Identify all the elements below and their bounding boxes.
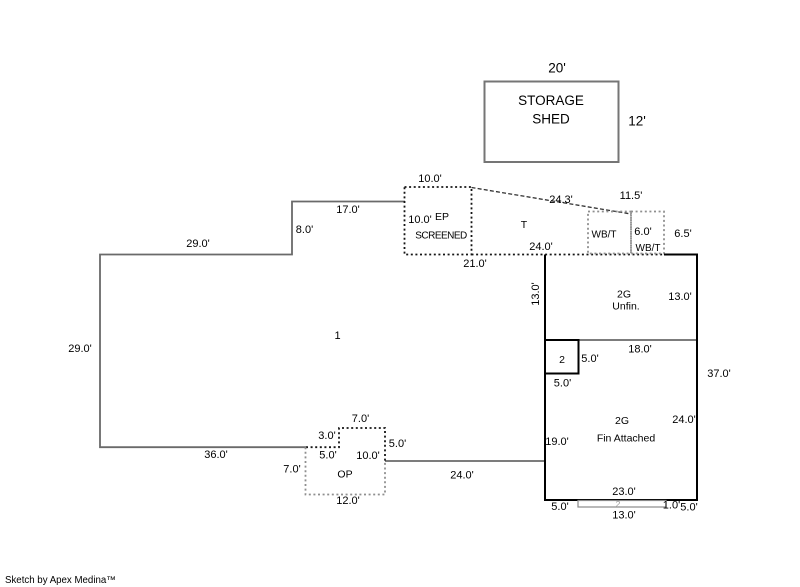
svg-text:5.0': 5.0' <box>319 450 336 462</box>
wire 24.0' connector line from OP to garage <box>385 460 545 462</box>
svg-text:24.0': 24.0' <box>672 414 696 426</box>
EP screened porch dotted box <box>405 187 472 255</box>
OP porch gray dotted sides <box>306 447 386 494</box>
svg-text:11.5': 11.5' <box>620 190 643 202</box>
svg-text:20': 20' <box>548 60 566 75</box>
svg-text:5.0': 5.0' <box>389 438 406 450</box>
svg-text:23.0': 23.0' <box>612 486 636 498</box>
svg-text:17.0': 17.0' <box>336 204 360 216</box>
small box 2 outline <box>545 340 579 374</box>
T area diagonal dashed line 24.3' <box>472 188 632 215</box>
svg-text:12': 12' <box>628 113 646 128</box>
svg-text:5.0': 5.0' <box>551 501 568 513</box>
svg-text:WB/T: WB/T <box>636 243 661 254</box>
svg-text:18.0': 18.0' <box>628 344 652 356</box>
svg-text:21.0': 21.0' <box>463 258 487 270</box>
svg-text:7.0': 7.0' <box>283 464 300 476</box>
svg-text:5.0': 5.0' <box>554 378 571 390</box>
svg-text:6.5': 6.5' <box>674 228 691 240</box>
svg-text:7.0': 7.0' <box>352 413 369 425</box>
svg-text:24.0': 24.0' <box>529 241 553 253</box>
svg-text:OP: OP <box>337 468 352 480</box>
svg-text:Sketch by Apex Medina™: Sketch by Apex Medina™ <box>5 575 116 586</box>
svg-text:10.0': 10.0' <box>408 214 432 226</box>
house area 1 outline (17.0' top, 8.0' step, 29.0' top, 29.0' left, 36.0' bottom) <box>100 202 405 448</box>
svg-text:WB/T: WB/T <box>592 230 617 241</box>
svg-text:13.0': 13.0' <box>530 282 542 306</box>
svg-text:19.0': 19.0' <box>545 436 569 448</box>
stoop rectangle below garage <box>578 501 666 508</box>
WB/T box 2 dotted outline <box>631 212 664 254</box>
svg-text:3.0': 3.0' <box>318 430 335 442</box>
svg-text:10.0': 10.0' <box>356 450 380 462</box>
svg-text:2G: 2G <box>615 415 629 427</box>
storage shed outline <box>485 82 619 163</box>
svg-text:5.0': 5.0' <box>680 502 697 514</box>
garage 2G outline (open top at left, solid 6.5' top segment, right, bottom, left edges) <box>545 255 697 501</box>
svg-text:6.0': 6.0' <box>634 226 651 238</box>
svg-text:29.0': 29.0' <box>186 238 210 250</box>
WB/T box 1 dotted outline <box>588 212 631 254</box>
svg-text:24.0': 24.0' <box>450 470 474 482</box>
svg-text:SCREENED: SCREENED <box>415 230 467 241</box>
svg-text:13.0': 13.0' <box>668 291 692 303</box>
svg-text:29.0': 29.0' <box>68 343 92 355</box>
svg-text:2: 2 <box>616 499 621 509</box>
svg-text:2: 2 <box>559 354 565 366</box>
svg-text:10.0': 10.0' <box>418 173 442 185</box>
svg-text:SHED: SHED <box>532 111 570 126</box>
svg-text:1.0': 1.0' <box>663 500 680 512</box>
svg-text:2G: 2G <box>617 288 631 300</box>
svg-text:Fin Attached: Fin Attached <box>597 432 656 444</box>
OP bump dark dotted outline (3.0' up, 7.0' across, 5.0' down) <box>306 428 385 461</box>
svg-text:37.0': 37.0' <box>707 368 731 380</box>
svg-text:13.0': 13.0' <box>612 510 636 522</box>
garage divider line between 2G Unfin and 2G Fin Attached <box>546 339 696 341</box>
svg-text:T: T <box>521 219 528 231</box>
svg-text:36.0': 36.0' <box>204 449 228 461</box>
svg-text:Unfin.: Unfin. <box>612 300 639 312</box>
svg-text:EP: EP <box>435 211 449 223</box>
svg-text:STORAGE: STORAGE <box>518 93 584 108</box>
svg-text:1: 1 <box>334 330 340 342</box>
svg-text:8.0': 8.0' <box>296 224 313 236</box>
svg-text:24.3': 24.3' <box>549 194 573 206</box>
svg-text:12.0': 12.0' <box>336 495 360 507</box>
T area bottom dotted line <box>472 254 666 256</box>
svg-text:5.0': 5.0' <box>581 353 598 365</box>
